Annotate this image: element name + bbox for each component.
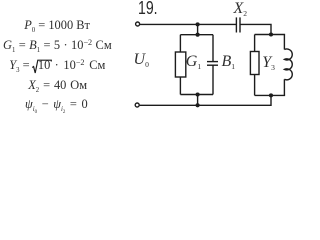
- wire right sub-bus top: [255, 34, 286, 36]
- terminal top-left: [136, 22, 140, 26]
- label Y3: [262, 55, 275, 71]
- wire stub top node down: [197, 24, 199, 34]
- radical tick of sqrt(10): [32, 60, 51, 73]
- label G1: [186, 54, 201, 70]
- inductor coil Y3: [284, 49, 292, 80]
- wire Y3 box branch top: [254, 35, 256, 52]
- wire Y3 box branch bottom: [254, 75, 256, 96]
- problem number 19.: [138, 0, 158, 17]
- wire B1 branch top: [212, 35, 214, 62]
- label B1: [222, 54, 236, 70]
- capacitor X2 plate left: [235, 17, 237, 32]
- box Y3: [250, 52, 259, 75]
- capacitor X2 plate right: [239, 17, 241, 32]
- wire G1 branch top: [179, 35, 181, 52]
- resistor box G1: [175, 52, 185, 77]
- formula line 3: Y3 = sqrt(10)e-2 Sm: [9, 59, 29, 71]
- wire G1 branch bottom: [179, 77, 181, 95]
- formula line 4: X2 = 40 Om: [28, 79, 87, 91]
- node top junction: [196, 22, 200, 26]
- node right sub-bus bottom: [269, 93, 273, 97]
- wire top from X2 to right corner: [240, 24, 271, 34]
- wire left sub-bus bottom: [180, 94, 213, 96]
- wire stub to bottom wire: [197, 95, 199, 106]
- formula line 2: G1 = B1 = 5e-2 Sm: [3, 39, 112, 51]
- wire inductor branch bottom: [283, 79, 285, 95]
- formula line 1: P0 = 1000 Vt: [24, 19, 90, 31]
- terminal bottom-left: [135, 103, 139, 107]
- node left sub-bus top: [196, 33, 200, 37]
- wire left sub-bus top: [180, 34, 213, 36]
- label U0: [134, 52, 149, 68]
- capacitor B1 plate bottom: [207, 64, 218, 66]
- capacitor B1 plate top: [207, 61, 218, 63]
- node left sub-bus bottom: [196, 92, 200, 96]
- node bottom junction: [196, 103, 200, 107]
- wire bottom: [140, 95, 271, 105]
- formula line 5: psi_i0 - psi_i2 = 0: [25, 98, 88, 110]
- wire right sub-bus bottom: [255, 94, 286, 96]
- label X2: [234, 1, 248, 17]
- wire B1 branch bottom: [212, 65, 214, 94]
- node right sub-bus top: [269, 32, 273, 36]
- wire top from terminal to X2: [140, 23, 236, 25]
- wire inductor branch top: [283, 35, 285, 50]
